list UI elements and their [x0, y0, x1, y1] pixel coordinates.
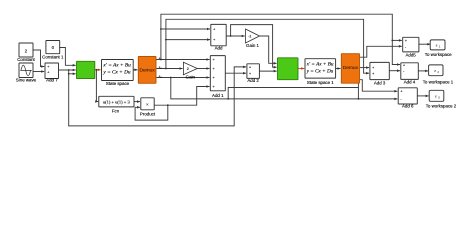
wire State space 1 output to Demux 1	[336, 67, 341, 70]
sum block Add	[211, 24, 226, 50]
constant block Constant value 2	[17, 43, 35, 62]
svg-text:+: +	[213, 28, 215, 32]
wire State space output to Demux	[133, 69, 137, 72]
sum block Add 3	[370, 62, 389, 85]
svg-text:Product: Product	[140, 112, 156, 117]
svg-text:Add 3: Add 3	[374, 80, 386, 85]
wire feedback below Add 1 to Demux 1 bottom and x3 line	[227, 88, 358, 100]
svg-text:2: 2	[187, 67, 189, 71]
sum block Add5	[403, 37, 419, 57]
svg-text:To workspace: To workspace	[425, 52, 452, 57]
wire Mux output to State space (signal u)	[95, 69, 101, 72]
svg-text:Add: Add	[215, 46, 223, 51]
wire Mux 1 output to State space 1	[298, 67, 304, 70]
source block Sine wave	[16, 63, 37, 82]
svg-text:Add 7: Add 7	[46, 77, 58, 82]
svg-text:State space 1: State space 1	[307, 80, 334, 85]
wire Gain 1 output to Mux 1 input 1	[260, 36, 277, 65]
svg-text:Add 2: Add 2	[247, 78, 259, 83]
svg-text:+: +	[400, 90, 402, 94]
demux block Demux 1 (orange)	[341, 54, 359, 83]
svg-text:Add 6: Add 6	[402, 104, 414, 109]
wire Add5 output to To workspace	[419, 43, 430, 46]
mux block (green) before State space	[77, 61, 95, 78]
svg-text:+: +	[213, 58, 215, 62]
svg-text:+: +	[403, 63, 405, 67]
wire Product output loop to Product input 2	[135, 104, 169, 120]
svg-text:Sine wave: Sine wave	[16, 77, 37, 82]
wire Add 4 output to To workspace 1	[418, 70, 428, 73]
wire x2 riser top feedback to Add 3 input 2	[165, 19, 369, 74]
svg-text:+: +	[249, 72, 251, 76]
wire x3 branch long bottom line to Add 6 input 2	[170, 77, 397, 101]
svg-text:Gain 1: Gain 1	[246, 43, 259, 48]
function block Fcn	[99, 96, 134, 113]
svg-text:Constant: Constant	[17, 57, 35, 62]
svg-text:Constant 1: Constant 1	[42, 55, 64, 60]
wire x2 spur to Add input 2	[165, 38, 210, 41]
product block Product	[140, 98, 156, 117]
svg-text:Add5: Add5	[405, 52, 416, 57]
wire Gain output to Add 1 input 2	[197, 67, 209, 70]
svg-text:+: +	[47, 65, 49, 69]
wire Demux 1 output 2 to Add 3 input 1	[360, 66, 370, 69]
sum block Add 4	[401, 63, 419, 85]
wire Add 1 output to Add 2 input 2	[225, 72, 246, 75]
svg-text:+: +	[213, 38, 215, 42]
svg-text:u(1) + u(1) + 3: u(1) + u(1) + 3	[103, 100, 131, 105]
signal label x2	[158, 65, 163, 70]
to-workspace block e1	[425, 40, 452, 57]
to-workspace block e2	[423, 65, 454, 85]
sum block Add 7	[45, 63, 59, 82]
svg-text:+: +	[213, 76, 215, 80]
svg-text:Gain: Gain	[186, 75, 196, 80]
wire Add output bypass over Gain 1 to Mux 1 input 2	[230, 25, 277, 69]
svg-text:Demux: Demux	[343, 65, 359, 71]
svg-text:+: +	[47, 70, 49, 74]
wire Add output to Gain 1 input	[226, 35, 245, 38]
gain block Gain 1 value -1	[246, 29, 260, 48]
wire Demux 1 bottom corner drop to x3 line	[358, 83, 360, 99]
svg-text:To workspace 1: To workspace 1	[423, 80, 454, 85]
svg-text:To workspace 2: To workspace 2	[426, 104, 457, 109]
wire Demux 1 output 1 to Add5 input 2	[360, 45, 402, 57]
state-space block State space	[102, 60, 134, 87]
gain block Gain value 2	[183, 62, 197, 79]
svg-text:Fcn: Fcn	[112, 109, 120, 114]
signal label x3	[158, 74, 163, 79]
svg-text:State space: State space	[106, 81, 130, 86]
wire Add 6 output to To workspace 2	[417, 95, 428, 98]
svg-text:+: +	[249, 66, 251, 70]
wire x2 Demux output 2 to Gain input	[156, 67, 183, 70]
wire x1 spur to Add input 1	[160, 28, 210, 31]
mux block 1 (green) before State space 1	[278, 58, 299, 80]
svg-text:x′ = Ax + Bu: x′ = Ax + Bu	[306, 62, 334, 68]
svg-text:e: e	[435, 95, 437, 99]
svg-text:+: +	[405, 39, 407, 43]
svg-text:x′ = Ax + Bu: x′ = Ax + Bu	[102, 62, 131, 68]
svg-text:e: e	[434, 69, 436, 73]
demux block Demux (orange)	[138, 57, 156, 84]
wire x1 riser top feedback to Add 4 input 1	[160, 14, 400, 66]
wire Fcn output to Product input 1	[134, 100, 140, 103]
svg-text:e: e	[436, 43, 438, 47]
constant block Constant 1 value 0	[42, 41, 64, 60]
wire Demux 1 output 3 to Add 6 input 1	[360, 80, 398, 93]
svg-text:+: +	[372, 72, 374, 76]
svg-text:y = Cx + Du: y = Cx + Du	[102, 70, 131, 76]
wire u branch down to Mux input 3	[68, 69, 76, 75]
svg-text:+: +	[213, 67, 215, 71]
sum block Add 1 with four inputs	[210, 56, 225, 99]
wire Add 3 output to Add 4 input 2	[389, 69, 400, 72]
wire Constant to Add 7 input 1	[33, 50, 44, 68]
wire x1 Demux output 1 to Add 1 input 1	[156, 58, 210, 61]
sum block Add 2	[247, 64, 260, 83]
wire u feedback bottom loop to Add 2 input 1	[68, 66, 246, 126]
svg-text:y = Cx + Du: y = Cx + Du	[306, 69, 334, 75]
svg-text:+: +	[372, 66, 374, 70]
state-space block State space 1	[305, 59, 336, 85]
wire Add 7 output to Mux input 2	[59, 69, 76, 72]
wire Product output to Add 1 input 4	[154, 85, 209, 105]
svg-text:Add 1: Add 1	[212, 93, 224, 98]
svg-text:Demux: Demux	[139, 67, 155, 73]
svg-text:-1: -1	[248, 35, 251, 39]
wire Sine wave to Add 7 input 2	[33, 70, 44, 73]
wire x3 Demux output 3 to Add 1 input 3	[156, 76, 210, 79]
signal label x1	[158, 56, 163, 61]
svg-text:Add 4: Add 4	[404, 80, 416, 85]
sum block Add 6	[398, 88, 417, 109]
wire Add 2 output to Mux 1 input 3	[259, 70, 276, 73]
svg-text:×: ×	[146, 102, 149, 107]
to-workspace block e3	[426, 90, 457, 108]
svg-text:+: +	[213, 85, 215, 89]
wire x1 spur to Add5 input 1	[391, 39, 402, 42]
wire branch down to Fcn input	[95, 69, 98, 103]
wire Constant 1 to Mux input 1	[60, 48, 76, 67]
